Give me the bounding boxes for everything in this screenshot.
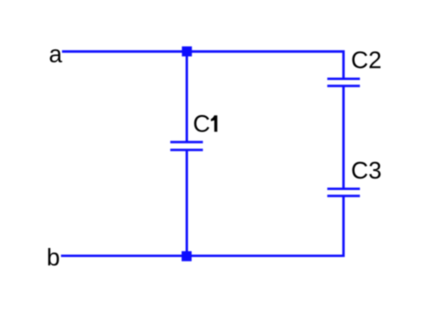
node a label — [50, 49, 62, 62]
wire: C1 bottom plate to bottom junction — [186, 150, 188, 256]
wire: C3 bottom to bottom junction (with corner) — [187, 196, 344, 256]
capacitor C3 — [327, 189, 360, 196]
junction: node a / C1 / C2 — [182, 46, 192, 56]
label C1 — [194, 115, 217, 132]
node b label — [48, 248, 59, 266]
label C2 — [352, 51, 380, 68]
wire: node a to top junction — [62, 50, 187, 52]
capacitor C2 — [327, 79, 360, 86]
wire: top junction to C1 top plate — [186, 52, 188, 143]
capacitor C1 — [170, 142, 203, 150]
wire: top junction to C2 top (with corner) — [187, 52, 344, 79]
junction: node b / C1 / C3 — [182, 251, 192, 261]
wire: C2 bottom to C3 top — [342, 86, 344, 189]
wire: bottom junction to node b — [61, 255, 187, 257]
label C3 — [352, 162, 380, 179]
